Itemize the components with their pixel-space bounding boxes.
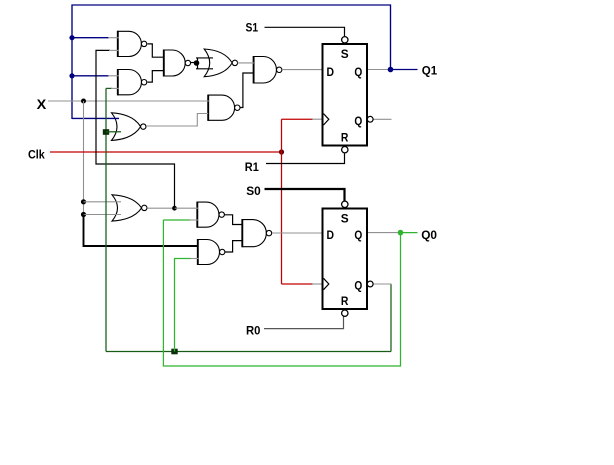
nand gate G9 (X nand nor) [208, 95, 240, 121]
node junction Q0 output [398, 230, 404, 236]
wire stub G4 input A [196, 57, 213, 59]
svg-text:Q0: Q0 [421, 228, 437, 242]
label S0 [246, 184, 261, 198]
node junction Clk net [279, 149, 284, 154]
svg-text:R1: R1 [245, 160, 259, 174]
wire S0 to FF0 S input (black thick) [265, 189, 345, 201]
wire NOR G5 output to G9 input B (gray) [146, 114, 208, 127]
wire G7 output to G9b input A (black) [225, 215, 243, 225]
svg-text:S: S [341, 212, 349, 226]
label Q0 [421, 228, 437, 242]
label Q1 [422, 63, 438, 77]
svg-text:Q1: Q1 [422, 63, 438, 77]
nand gate G9b to FF0 D [242, 219, 271, 247]
wire G9b output to FF0 D (gray) [272, 232, 322, 234]
wire G10 output to FF1 D (gray) [282, 69, 322, 71]
node junction on Q1 net at G1 tap [69, 35, 74, 40]
wire X net down to G8 (black) [84, 215, 199, 247]
wire G1 output to G3 input A (black) [148, 44, 164, 57]
wire Q-bar0 tap up to G8 input B (bright green) [175, 259, 192, 352]
wire G9 output up to G10 input B (black) [240, 73, 254, 108]
node junction on Q1 net at G2 tap [69, 73, 74, 78]
wire Q1 tap to gate G2 input A (navy) [72, 75, 109, 77]
wire junction to G7 input A (gray) [175, 207, 199, 209]
wire G8 output to G9b input B (black) [225, 241, 242, 252]
wire gray stub G1 input B [109, 49, 119, 51]
wire gray stub FF0 Q-bar output [373, 283, 392, 285]
wire S1 to FF1 S input (black) [265, 27, 345, 36]
wire Q-bar0 net bottom horizontal (dark green) [106, 351, 391, 353]
svg-text:D: D [327, 65, 335, 79]
nand gate G2 (Q1, Qbar0) [118, 69, 147, 95]
wire G6 output to junction (gray) [147, 207, 172, 209]
svg-text:S0: S0 [246, 184, 261, 198]
svg-text:R0: R0 [246, 323, 261, 337]
nand gate G3 middle [164, 50, 191, 77]
wire G3 output to junction (black) [191, 62, 196, 64]
node junction X net at G6 input A [81, 199, 86, 204]
flip-flop U1 (Q1) [323, 37, 374, 153]
node junction X net [81, 99, 86, 104]
wire G6 out up to G1 input B (black) [96, 50, 175, 208]
wire Q0 to label (bright green) [401, 232, 418, 234]
label X [37, 96, 47, 112]
wire FF1 Q-bar stub (gray) [373, 118, 392, 120]
wire Clk vertical (red) [281, 119, 283, 284]
wire gray stub G2 input A [108, 75, 119, 77]
node junction Q-bar0 net at NOR G5 tap [103, 129, 109, 135]
wire Clk horizontal (red) [50, 151, 282, 153]
svg-text:X: X [37, 96, 47, 112]
wire Clk to FF0 clock input (red) [282, 283, 314, 285]
wire junction to G4 both inputs (black) [197, 58, 199, 69]
wire FF1 Q output stub (gray) [368, 69, 388, 71]
wire X net vertical down (gray) [83, 101, 85, 215]
wire FF0 Q output stub (gray) [368, 232, 398, 234]
wire Q-bar0 tap to NOR G5 input B (dark green) [106, 131, 121, 133]
node junction X net at G6 input B [81, 212, 86, 217]
wire Q1 feedback net (navy) top border [72, 5, 391, 119]
wire G4 output to G10 input A (gray) [238, 62, 255, 64]
nor gate G5 (Q1, Qbar0) [112, 113, 147, 141]
nor gate G6 X inverter [112, 195, 147, 221]
label S1 [246, 20, 259, 34]
nand gate G10 to FF1 D [254, 56, 282, 84]
svg-text:Q: Q [354, 114, 362, 128]
flip-flop U0 (Q0) [323, 201, 374, 316]
svg-text:Q: Q [354, 228, 362, 242]
svg-text:Clk: Clk [28, 147, 45, 161]
wire input X horizontal (gray) [48, 100, 210, 102]
wire gray stub FF1 clock [312, 118, 322, 120]
node junction G6 output [172, 206, 177, 211]
svg-text:Q: Q [354, 65, 362, 79]
nor gate G4 inverter [204, 49, 237, 77]
node junction Q1 output (navy) [388, 67, 394, 73]
wire Q-bar0 net vertical right (dark green) [390, 284, 392, 352]
svg-text:D: D [327, 228, 335, 242]
nand gate G1 (Q1, notX) [118, 31, 147, 57]
wire gray stub G2 input B [111, 87, 119, 89]
wire G2 output to G3 input B (black) [148, 71, 164, 83]
label R0 [246, 323, 261, 337]
wire R1 to FF1 R input (black) [266, 154, 345, 164]
wire stub G6 input B (gray) [84, 214, 122, 216]
wire gray stub G7 input B [189, 219, 198, 221]
wire gray stub G1 input A [108, 37, 119, 39]
wire gray stub G8 input B [190, 258, 199, 260]
wire Q1 to label (navy) [391, 69, 418, 71]
svg-text:Q: Q [354, 279, 362, 293]
label R1 [245, 160, 259, 174]
wire R0 to FF0 R input (gray) [264, 317, 344, 329]
svg-text:R: R [341, 294, 349, 308]
wire Q-bar0 net to G2 input B (dark green) [106, 87, 112, 89]
label Clk [28, 147, 45, 161]
node junction G3 output [194, 60, 200, 66]
nand gate G8 (X, Qbar0) [198, 239, 225, 265]
nand gate G7 (notX, Q0) [197, 202, 224, 228]
wire Q1 tap to gate G1 input A (navy) [72, 37, 109, 39]
svg-text:S1: S1 [246, 20, 259, 34]
wire Q0 tap horizontal into G7 (bright green) [163, 219, 190, 221]
wire gray stub FF0 clock [312, 283, 322, 285]
node junction Q-bar0 net at G8 tap [171, 349, 177, 355]
wire Clk to FF1 clock input (red) [282, 118, 314, 120]
wire Q1 net to NOR G5 input A (navy) [72, 117, 119, 119]
wire stub G4 input B [196, 68, 213, 70]
wire Q-bar0 net vertical left (dark green) [105, 88, 107, 351]
wire Q0 feedback to G7 input B (bright green) [163, 220, 400, 366]
svg-text:S: S [341, 47, 349, 61]
wire stub G6 input A (gray) [84, 201, 122, 203]
svg-text:R: R [341, 131, 349, 145]
